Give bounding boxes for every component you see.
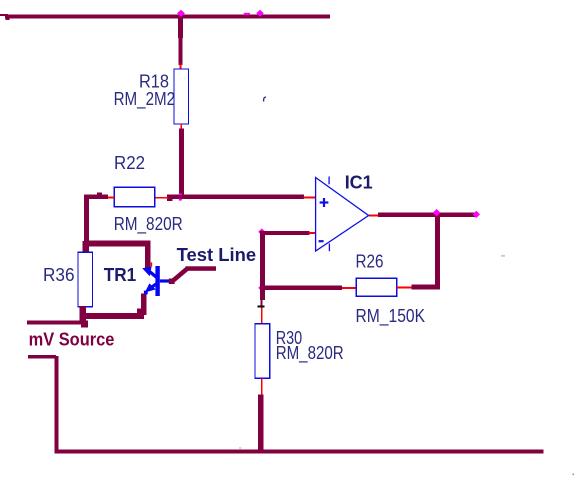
TR1 base lead: [160, 279, 171, 282]
resistor R30: [255, 324, 270, 379]
artifact faint lavender dash: [501, 255, 505, 257]
junction dot R18/R22 node: [177, 193, 185, 200]
resistor R18: [174, 69, 189, 124]
wire output horizontal: [378, 213, 477, 218]
wire bottom rail: [54, 450, 543, 454]
op-amp power tick bottom: [328, 244, 330, 252]
wire test line diagonal: [172, 268, 188, 282]
wire vertical from rail to R18: [178, 18, 183, 38]
svg-text:Test Line: Test Line: [177, 245, 257, 265]
black pin tick above R30: [258, 306, 265, 308]
wire vertical left branch down: [84, 195, 89, 248]
transistor TR1: [142, 266, 171, 296]
junction dot on top rail at vertical wire: [177, 10, 185, 17]
wire minus node vertical: [260, 231, 265, 300]
pin R22 right (red): [155, 197, 169, 199]
artifact blue dot bottom right: [573, 474, 575, 476]
junction dot on top rail right: [256, 10, 264, 17]
wire minus input horizontal: [260, 231, 310, 235]
TR1 emitter tail blob: [144, 291, 148, 295]
wire top rail thin left stub: [0, 14, 8, 16]
TR1 base bar: [155, 266, 159, 296]
junction dot output end: [473, 211, 480, 218]
svg-text:IC1: IC1: [345, 172, 373, 192]
pin minus input (red): [309, 232, 317, 234]
wire R36 bottom stub: [80, 306, 86, 325]
pin R18 bottom (red): [180, 124, 182, 131]
svg-text:R26: R26: [356, 252, 384, 272]
junction dot R18/R22 node visible tips: [179, 193, 182, 195]
svg-text:RM_820R: RM_820R: [114, 214, 183, 235]
wire top rail: [5, 15, 330, 19]
svg-text:RM_150K: RM_150K: [356, 306, 426, 327]
wire horizontal junction to op-amp plus input: [167, 195, 304, 200]
TR1 emitter arrow: [145, 283, 156, 292]
op-amp power tick top: [328, 177, 330, 185]
wire feedback right horizontal: [411, 285, 440, 290]
wire test line horizontal: [186, 266, 217, 271]
resistor R22: [114, 187, 154, 207]
junction dot output node: [433, 209, 441, 216]
svg-text:mV Source: mV Source: [29, 330, 115, 350]
wire feedback vertical up to output: [435, 215, 440, 289]
TR1 collector arrow: [142, 267, 151, 277]
artifact faint pink speck above bottom rail: [239, 447, 242, 449]
wire test line nub at base: [169, 279, 175, 285]
wire R18 to junction: [179, 129, 184, 199]
wire R22 left horizontal: [84, 195, 108, 200]
wire emitter jog: [137, 308, 144, 314]
wire emitter vertical: [141, 294, 147, 316]
wire mV source horizontal upper: [28, 355, 56, 359]
TR1 emitter diagonal: [150, 281, 159, 289]
pin R18 top (red): [180, 64, 182, 71]
pin R26 right (red): [397, 287, 413, 289]
svg-text:RM_2M2: RM_2M2: [114, 89, 176, 110]
wire nub below R22 right pin: [167, 199, 173, 202]
wire nub below mV node: [81, 324, 88, 327]
pin TR1 top (red): [151, 262, 153, 266]
pin R30 bottom (red): [261, 378, 263, 394]
op-amp plus sign: [320, 198, 329, 207]
wire collector vertical to TR1: [145, 241, 151, 268]
svg-text:R22: R22: [114, 153, 145, 173]
svg-text:TR1: TR1: [104, 265, 137, 285]
wire emitter bottom node horizontal: [83, 313, 144, 319]
op-amp U1 triangle: [316, 178, 369, 252]
pin R30 top (red): [261, 308, 263, 325]
magenta dash on top rail: [244, 13, 250, 15]
svg-text:RM_820R: RM_820R: [276, 343, 344, 364]
pin op-amp output (red): [369, 215, 379, 217]
artifact navy tick: [264, 97, 267, 101]
wire nub above R22 left wire: [97, 193, 102, 195]
resistor R26: [356, 278, 397, 296]
wire R30 to bottom rail: [258, 395, 264, 452]
pin R26 left (red): [342, 287, 357, 289]
pin plus input (red): [304, 197, 317, 199]
wire minus node lower stub: [260, 300, 262, 306]
resistor R36: [78, 252, 93, 307]
wire mV source vertical down: [54, 356, 58, 451]
wire mV source horizontal: [27, 321, 88, 325]
TR1 collector diagonal: [147, 269, 160, 280]
junction dot minus input corner: [258, 228, 265, 235]
wire feedback left horizontal: [260, 286, 342, 291]
op-amp minus sign: [319, 240, 324, 242]
wire top rail start nub: [6, 19, 10, 21]
pin R22 left (red): [107, 197, 115, 199]
svg-text:R36: R36: [43, 265, 75, 285]
wire collector horizontal: [84, 241, 151, 247]
junction dot feedback node: [258, 284, 265, 291]
wire R36 top stub: [82, 241, 89, 253]
